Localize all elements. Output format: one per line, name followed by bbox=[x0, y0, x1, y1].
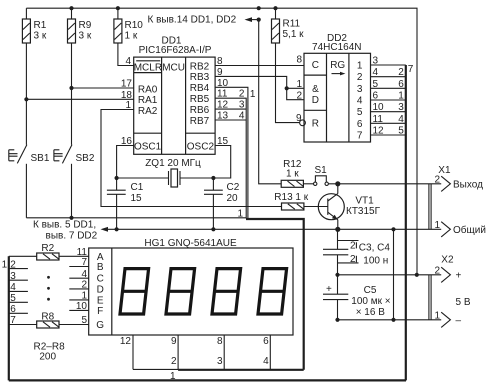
svg-text:X2: X2 bbox=[441, 255, 454, 266]
svg-text:11: 11 bbox=[373, 114, 384, 125]
svg-text:2: 2 bbox=[350, 254, 356, 265]
svg-text:12: 12 bbox=[120, 336, 132, 347]
svg-text:1: 1 bbox=[434, 220, 440, 231]
svg-text:HG1 GNQ-5641AUE: HG1 GNQ-5641AUE bbox=[144, 238, 237, 249]
svg-text:3: 3 bbox=[357, 84, 363, 95]
svg-text:8: 8 bbox=[217, 336, 223, 347]
svg-text:Общий: Общий bbox=[453, 224, 486, 236]
svg-text:9: 9 bbox=[296, 113, 302, 124]
svg-text:RA0: RA0 bbox=[138, 84, 158, 95]
svg-text:4: 4 bbox=[373, 67, 379, 78]
svg-text:3: 3 bbox=[239, 100, 245, 111]
svg-text:1: 1 bbox=[81, 291, 87, 302]
svg-text:12: 12 bbox=[373, 126, 385, 137]
svg-text:SB1: SB1 bbox=[31, 153, 50, 164]
svg-text:2: 2 bbox=[171, 356, 177, 367]
svg-text:D: D bbox=[97, 284, 104, 295]
svg-text:6: 6 bbox=[373, 91, 379, 102]
svg-text:1: 1 bbox=[2, 259, 8, 270]
svg-text:5 В: 5 В bbox=[456, 297, 471, 308]
svg-text:RB3: RB3 bbox=[190, 72, 210, 83]
svg-text:7: 7 bbox=[10, 315, 16, 326]
svg-text:5: 5 bbox=[81, 315, 87, 326]
svg-text:R: R bbox=[312, 119, 319, 130]
svg-text:100 н: 100 н bbox=[363, 256, 388, 267]
svg-text:C2: C2 bbox=[227, 182, 240, 193]
svg-text:5: 5 bbox=[10, 293, 16, 304]
svg-text:C: C bbox=[312, 60, 319, 71]
svg-text:2: 2 bbox=[81, 280, 87, 291]
svg-text:4: 4 bbox=[263, 356, 269, 367]
svg-text:VT1: VT1 bbox=[355, 196, 374, 207]
svg-text:C3, C4: C3, C4 bbox=[359, 243, 391, 254]
svg-text:RB4: RB4 bbox=[190, 83, 210, 94]
svg-text:E: E bbox=[97, 295, 104, 306]
svg-text:6: 6 bbox=[263, 336, 269, 347]
svg-text:2: 2 bbox=[398, 67, 404, 78]
svg-text:MCLR: MCLR bbox=[134, 62, 162, 73]
svg-text:ZQ1 20 МГц: ZQ1 20 МГц bbox=[145, 158, 201, 169]
svg-text:1 к: 1 к bbox=[125, 31, 138, 42]
svg-text:C5: C5 bbox=[364, 285, 377, 296]
svg-text:8: 8 bbox=[296, 55, 302, 66]
svg-text:15: 15 bbox=[131, 193, 143, 204]
svg-text:R8: R8 bbox=[41, 312, 54, 323]
svg-text:4: 4 bbox=[398, 114, 404, 125]
svg-text:2: 2 bbox=[10, 259, 16, 270]
svg-text:R1: R1 bbox=[34, 20, 47, 31]
svg-text:+: + bbox=[326, 284, 332, 295]
svg-text:R13 1 к: R13 1 к bbox=[274, 192, 308, 203]
svg-text:6: 6 bbox=[10, 304, 16, 315]
svg-text:X1: X1 bbox=[438, 165, 451, 176]
svg-text:4: 4 bbox=[10, 282, 16, 293]
svg-text:9: 9 bbox=[171, 336, 177, 347]
svg-text:C: C bbox=[97, 274, 104, 285]
svg-text:5: 5 bbox=[398, 126, 404, 137]
svg-text:6: 6 bbox=[398, 79, 404, 90]
svg-text:OSC1: OSC1 bbox=[134, 141, 162, 152]
svg-text:К выв.14 DD1, DD2: К выв.14 DD1, DD2 bbox=[148, 15, 237, 26]
svg-text:SB2: SB2 bbox=[76, 153, 95, 164]
svg-text:6: 6 bbox=[357, 119, 363, 130]
svg-text:4: 4 bbox=[125, 56, 131, 67]
svg-text:–: – bbox=[456, 315, 462, 326]
svg-text:4: 4 bbox=[81, 269, 87, 280]
svg-text:3: 3 bbox=[10, 271, 16, 282]
svg-text:RA2: RA2 bbox=[138, 106, 158, 117]
svg-text:R10: R10 bbox=[125, 20, 144, 31]
svg-text:5: 5 bbox=[357, 107, 363, 118]
svg-text:5: 5 bbox=[373, 79, 379, 90]
svg-text:+: + bbox=[456, 270, 462, 281]
svg-text:1: 1 bbox=[296, 79, 302, 90]
svg-text:2: 2 bbox=[296, 91, 302, 102]
svg-text:2: 2 bbox=[434, 174, 440, 185]
svg-text:1 к: 1 к bbox=[286, 169, 299, 180]
svg-text:OSC2: OSC2 bbox=[187, 141, 215, 152]
svg-text:5,1 к: 5,1 к bbox=[283, 29, 305, 40]
svg-text:КТ315Г: КТ315Г bbox=[346, 206, 381, 217]
svg-text:выв. 7 DD2: выв. 7 DD2 bbox=[46, 231, 98, 242]
svg-text:1: 1 bbox=[237, 209, 243, 220]
svg-text:3 к: 3 к bbox=[34, 31, 47, 42]
svg-text:1: 1 bbox=[398, 91, 404, 102]
svg-text:RB5: RB5 bbox=[190, 94, 210, 105]
svg-text:3: 3 bbox=[217, 356, 223, 367]
svg-text:2: 2 bbox=[434, 265, 440, 276]
svg-text:1: 1 bbox=[357, 61, 363, 72]
svg-text:К выв. 5 DD1,: К выв. 5 DD1, bbox=[33, 220, 96, 231]
svg-text:2: 2 bbox=[357, 72, 363, 83]
svg-text:74HC164N: 74HC164N bbox=[312, 42, 361, 53]
svg-text:2: 2 bbox=[350, 240, 356, 251]
svg-text:F: F bbox=[97, 306, 103, 317]
svg-text:RA1: RA1 bbox=[138, 95, 158, 106]
svg-text:7: 7 bbox=[408, 64, 414, 75]
svg-text:2: 2 bbox=[239, 89, 245, 100]
svg-text:RB7: RB7 bbox=[190, 116, 210, 127]
svg-text:G: G bbox=[96, 320, 104, 331]
svg-text:17: 17 bbox=[121, 79, 133, 90]
svg-text:3: 3 bbox=[398, 102, 404, 113]
svg-text:RB2: RB2 bbox=[190, 61, 210, 72]
svg-text:B: B bbox=[97, 262, 104, 273]
svg-text:RG: RG bbox=[330, 60, 345, 71]
svg-text:7: 7 bbox=[81, 257, 87, 268]
svg-text:100 мк ×: 100 мк × bbox=[351, 296, 390, 307]
svg-text:MCU: MCU bbox=[162, 62, 185, 73]
svg-text:20: 20 bbox=[227, 193, 239, 204]
svg-text:D: D bbox=[312, 95, 319, 106]
svg-text:1: 1 bbox=[170, 371, 176, 382]
svg-text:7: 7 bbox=[357, 131, 363, 142]
svg-text:R2: R2 bbox=[41, 243, 54, 254]
svg-text:3 к: 3 к bbox=[79, 31, 92, 42]
svg-text:× 16 В: × 16 В bbox=[356, 307, 386, 318]
svg-text:200: 200 bbox=[39, 351, 56, 362]
svg-text:S1: S1 bbox=[315, 165, 328, 176]
svg-text:&: & bbox=[312, 84, 319, 95]
svg-text:RB6: RB6 bbox=[190, 105, 210, 116]
svg-text:C1: C1 bbox=[131, 182, 144, 193]
svg-text:1: 1 bbox=[250, 89, 256, 100]
svg-text:4: 4 bbox=[239, 111, 245, 122]
svg-text:1: 1 bbox=[434, 310, 440, 321]
svg-text:10: 10 bbox=[373, 102, 385, 113]
svg-text:R11: R11 bbox=[283, 19, 301, 30]
svg-text:PIC16F628A-I/P: PIC16F628A-I/P bbox=[139, 45, 212, 56]
svg-text:Выход: Выход bbox=[453, 179, 483, 190]
svg-text:R9: R9 bbox=[79, 20, 92, 31]
svg-text:3: 3 bbox=[373, 56, 379, 67]
svg-text:4: 4 bbox=[357, 96, 363, 107]
svg-text:10: 10 bbox=[76, 301, 88, 312]
